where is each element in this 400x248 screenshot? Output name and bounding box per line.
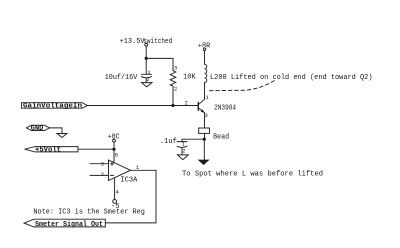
wire +8R to inductor <box>204 51 206 65</box>
dashed leader to L200 note <box>210 80 277 91</box>
note text <box>33 208 144 216</box>
svg-text:.1uf: .1uf <box>160 138 177 146</box>
pin 8 op-amp <box>115 152 118 159</box>
node +13.5V switched power symbol <box>145 43 148 46</box>
ferrite bead <box>199 128 210 133</box>
node +8R power symbol <box>203 48 205 50</box>
svg-text:switched: switched <box>143 38 172 46</box>
svg-text:To Spot where L was before lif: To Spot where L was before lifted <box>182 170 323 178</box>
wire GND flag <box>50 128 63 134</box>
wire op-amp output pin 1 <box>131 169 157 171</box>
node -5 power symbol <box>113 200 117 204</box>
ground under C1 <box>142 83 153 87</box>
capacitor C1 10uf/16V <box>141 73 151 75</box>
wire junction down to lifted spot <box>203 139 205 159</box>
wire pin 4 to -5 <box>114 178 116 200</box>
svg-text:10K: 10K <box>183 73 196 81</box>
svg-text:IC3A: IC3A <box>120 176 138 184</box>
transistor base bar <box>197 102 199 110</box>
junction top <box>145 57 148 60</box>
resistor R 10K <box>170 71 176 87</box>
junction below bead <box>203 138 206 141</box>
ground under C2 <box>177 155 188 160</box>
junction +5Volt <box>112 148 115 151</box>
junction resistor/line <box>171 104 174 107</box>
svg-text:2: 2 <box>174 86 177 93</box>
svg-text:GND: GND <box>31 125 44 133</box>
svg-text:8: 8 <box>115 152 118 159</box>
op-amp plus mark <box>110 162 113 165</box>
svg-text:GainVoltageIn: GainVoltageIn <box>23 103 82 111</box>
node +13.5V label <box>120 38 173 46</box>
node +8C power symbol <box>113 139 116 142</box>
wire junction to capacitor C1 <box>145 58 147 73</box>
svg-text:L200 Lifted on cold end (end t: L200 Lifted on cold end (end toward Q2) <box>210 74 373 82</box>
flag GND <box>26 125 49 130</box>
svg-text:2: 2 <box>182 148 185 155</box>
wire emitter to bead <box>204 113 206 128</box>
wire bead to junction <box>204 133 206 139</box>
value 10uf/16V <box>105 74 138 82</box>
svg-text:4: 4 <box>116 188 120 195</box>
pin 2 resistor <box>174 86 177 93</box>
note To Spot <box>182 170 323 178</box>
svg-text:2: 2 <box>185 99 188 106</box>
op-amp U IC3A <box>109 160 131 181</box>
wire junction to capacitor C2 <box>182 138 204 140</box>
wire junction to resistor top <box>146 58 173 70</box>
svg-text:+5Volt: +5Volt <box>35 147 61 155</box>
pin 2 base <box>185 99 188 106</box>
wire input pin 3 <box>90 163 109 165</box>
value 10K <box>183 73 196 81</box>
svg-text:3: 3 <box>174 64 177 71</box>
capacitor C2 .1uf <box>181 139 183 141</box>
wire resistor bottom lead <box>172 86 174 105</box>
svg-text:Smeter Signal Out: Smeter Signal Out <box>35 221 103 229</box>
wire power circle to junction <box>145 46 147 58</box>
filled arrow lifted spot <box>198 160 210 166</box>
transistor Q 2N3904 collector <box>198 99 204 104</box>
pin 3 resistor <box>174 64 177 71</box>
svg-text:3: 3 <box>205 112 208 119</box>
transistor emitter <box>198 108 204 113</box>
wire output down <box>105 170 156 223</box>
svg-text:2N3904: 2N3904 <box>214 105 236 113</box>
ground GND <box>57 134 67 138</box>
op-amp minus mark <box>110 174 113 176</box>
svg-text:10uf/16V: 10uf/16V <box>105 74 138 82</box>
emitter arrow <box>201 109 205 113</box>
inductor L200 <box>205 64 207 82</box>
svg-text:3: 3 <box>101 160 104 167</box>
svg-text:+8C: +8C <box>108 133 120 141</box>
pin 1 C1 <box>147 69 151 76</box>
wire inductor to collector <box>204 83 206 100</box>
flag Smeter Signal Out <box>24 219 105 227</box>
wire GainVoltageIn to base <box>87 105 198 107</box>
pin 2 C1 <box>146 76 149 83</box>
flag +5Volt <box>25 147 78 152</box>
svg-text:1: 1 <box>205 94 209 101</box>
wire +5Volt to op-amp supply <box>78 148 114 150</box>
svg-text:Note: IC3 is the Smeter Reg: Note: IC3 is the Smeter Reg <box>33 208 144 216</box>
svg-text:Bead: Bead <box>213 134 229 142</box>
svg-text:2: 2 <box>101 171 104 178</box>
svg-text:+13.5V: +13.5V <box>120 38 146 46</box>
flag GainVoltageIn <box>22 103 88 109</box>
wire input pin 2 <box>90 174 109 176</box>
svg-text:+8R: +8R <box>198 43 211 51</box>
wire +8C down to op-amp <box>113 142 115 162</box>
